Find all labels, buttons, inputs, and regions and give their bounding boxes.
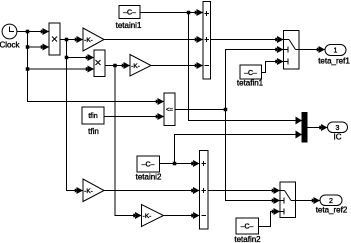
svg-text:Clock: Clock [0,41,20,50]
svg-text:–C–: –C– [142,162,155,169]
svg-text:<=: <= [166,108,174,114]
svg-text:tfin: tfin [88,113,97,120]
svg-text:2: 2 [329,198,333,205]
svg-text:3: 3 [336,125,340,132]
svg-text:-K-: -K- [84,188,93,195]
svg-text:–C–: –C– [244,70,257,77]
svg-text:–C–: –C– [241,224,254,231]
svg-text:IC: IC [334,133,342,142]
svg-text:teta_ref1: teta_ref1 [318,57,350,66]
svg-text:tfin: tfin [88,127,99,136]
svg-text:-K-: -K- [131,63,140,70]
svg-text:–C–: –C– [123,10,136,17]
svg-text:tetaini1: tetaini1 [116,21,142,30]
svg-text:tetaini2: tetaini2 [136,173,162,182]
svg-text:1: 1 [334,48,338,55]
svg-text:-K-: -K- [143,213,152,220]
svg-text:-K-: -K- [84,37,93,44]
svg-text:tetafin1: tetafin1 [237,79,264,88]
svg-text:tetafin2: tetafin2 [234,235,261,243]
svg-text:teta_ref2: teta_ref2 [316,206,348,215]
